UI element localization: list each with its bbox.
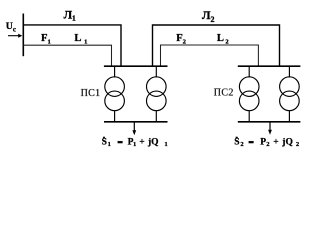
svg-text:2: 2 — [296, 141, 300, 148]
svg-text:1: 1 — [108, 141, 111, 148]
node source bus (vertical busbar) — [22, 14, 24, 57]
svg-text:S: S — [234, 138, 239, 148]
svg-text:jQ: jQ — [281, 138, 293, 148]
svg-text:+: + — [139, 138, 144, 148]
svg-text:+: + — [273, 138, 278, 148]
svg-text:1: 1 — [164, 141, 167, 148]
svg-text:L2: L2 — [217, 33, 229, 46]
svg-text:ПС2: ПС2 — [214, 88, 234, 99]
wire line L1 (Л1): horizontal + drop to PS1 HV bus — [23, 25, 121, 66]
label S1 = P1 + jQ1 — [102, 137, 168, 148]
node PS2 LV bus — [238, 121, 301, 123]
svg-text:2: 2 — [240, 141, 244, 148]
transformer T2 of PS1 — [147, 66, 167, 122]
transformer T1 of PS2 — [239, 66, 259, 122]
label S2 = P2 + jQ2 — [234, 137, 300, 148]
svg-text:Uс: Uс — [6, 21, 16, 33]
wire line F1L1: horizontal + drop to PS1 HV bus — [23, 45, 111, 66]
wire line L2 (Л2): drop from PS1 HV bus, horizontal, drop to PS2 HV bus — [153, 25, 280, 66]
svg-text:L1: L1 — [74, 33, 87, 46]
node PS1 HV bus — [104, 65, 168, 67]
svg-text:Л1: Л1 — [64, 10, 77, 23]
svg-text:S: S — [102, 138, 107, 148]
svg-text:ПС1: ПС1 — [81, 88, 101, 99]
svg-text:F1: F1 — [41, 33, 51, 46]
svg-text:Л2: Л2 — [202, 10, 215, 24]
svg-text:1: 1 — [133, 141, 136, 148]
svg-text:2: 2 — [266, 141, 270, 148]
node PS2 HV bus — [238, 65, 301, 67]
node PS1 LV bus — [104, 121, 168, 123]
arrow load S1 — [132, 122, 136, 135]
svg-text:jQ: jQ — [147, 138, 159, 148]
arrow Uc into bus — [8, 34, 22, 38]
wire line F2L2: drop from PS1 HV bus, horizontal, drop to PS2 HV bus — [161, 45, 259, 66]
transformer T1 of PS1 — [105, 66, 125, 122]
transformer T2 of PS2 — [280, 66, 300, 122]
arrow load S2 — [268, 122, 272, 134]
svg-text:F2: F2 — [176, 33, 186, 46]
